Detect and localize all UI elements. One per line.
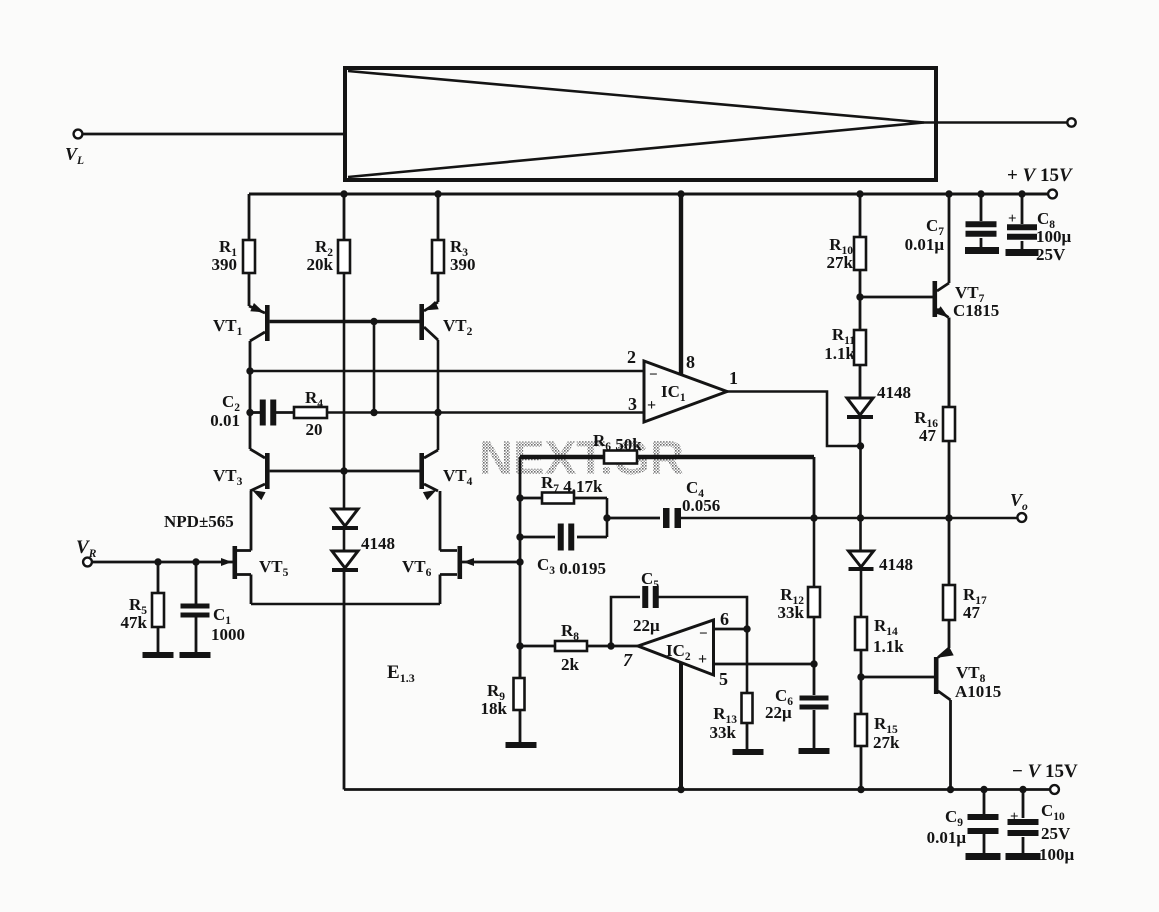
resistor R6 feedback line — [520, 431, 814, 464]
svg-text:8: 8 — [686, 352, 695, 372]
junction pin6 node — [743, 625, 750, 632]
junction rail-R2 — [340, 190, 347, 197]
svg-text:0.01μ: 0.01μ — [905, 235, 945, 254]
resistor R16 — [914, 318, 955, 519]
wire IC2 pin6 — [714, 628, 748, 631]
wire IC1 pin8 — [679, 194, 683, 376]
resistor R10 — [827, 194, 866, 297]
capacitor C1 — [181, 562, 246, 653]
wire IC1 output — [727, 392, 861, 447]
op-amp IC1 — [627, 347, 738, 422]
svg-text:5: 5 — [719, 669, 728, 689]
label E1.3 — [387, 662, 415, 685]
junction C4 node — [603, 514, 610, 521]
ground C8 — [1006, 249, 1039, 256]
fader wedge top line — [348, 71, 924, 123]
svg-text:25V: 25V — [1041, 824, 1071, 843]
capacitor C7 — [905, 194, 997, 254]
wire VT3/VT4 base line — [270, 470, 420, 473]
svg-text:+ V 15V: + V 15V — [1007, 165, 1073, 186]
label NPD±565 — [164, 512, 234, 531]
junction Vo-R17 — [945, 514, 952, 521]
-V 15V supply rail — [344, 788, 1050, 791]
transistor VT2 (PNP) — [419, 301, 472, 450]
wire R7 to C4 node — [606, 498, 609, 537]
resistor R17 — [943, 518, 987, 648]
junction Vo-diode column — [857, 514, 864, 521]
svg-text:+: + — [647, 397, 656, 414]
junction VR-C1 — [192, 558, 199, 565]
svg-text:4148: 4148 — [879, 555, 913, 574]
capacitor C8 (electrolytic) — [1007, 194, 1072, 264]
capacitor C6 — [765, 664, 829, 749]
transistor VT5 (JFET) — [221, 491, 289, 604]
wire between diodes — [343, 530, 346, 551]
ground C9 — [966, 853, 1001, 860]
wire Vo line — [678, 517, 1018, 520]
svg-text:4148: 4148 — [361, 534, 395, 553]
svg-text:3: 3 — [628, 394, 637, 414]
label 4148 pair — [361, 534, 395, 553]
svg-text:100μ: 100μ — [1036, 227, 1072, 246]
junction base line to x374 — [370, 318, 377, 325]
svg-text:33k: 33k — [710, 723, 737, 742]
diode D-b 4148 — [332, 551, 358, 572]
svg-text:C1815: C1815 — [953, 301, 999, 320]
node VL input terminal — [65, 130, 84, 167]
junction rail-VT7 — [945, 190, 952, 197]
junction rail-C8 — [1018, 190, 1025, 197]
transistor VT4 (NPN) — [419, 450, 472, 500]
transistor VT6 (JFET) — [402, 491, 474, 604]
junction rail-R15 — [857, 786, 864, 793]
op-amp IC2 — [623, 609, 729, 689]
svg-text:27k: 27k — [873, 733, 900, 752]
diode D2 4148 — [849, 551, 914, 574]
junction IC1 output-diode column — [857, 442, 864, 449]
resistor R9 — [481, 646, 525, 743]
wire IC2 power pin — [679, 663, 683, 790]
capacitor C5 feedback — [611, 569, 747, 646]
fader/potentiometer box — [345, 68, 936, 180]
svg-text:33k: 33k — [778, 603, 805, 622]
capacitor C9 — [927, 790, 999, 854]
svg-text:1: 1 — [729, 368, 738, 388]
diode D1 4148 — [847, 383, 911, 419]
capacitor C4 — [607, 478, 720, 528]
junction pin2 line — [246, 367, 253, 374]
svg-text:1.1k: 1.1k — [873, 637, 904, 656]
junction gate node — [516, 558, 523, 565]
transistor VT3 (NPN) — [213, 449, 270, 500]
resistor R11 — [824, 297, 866, 398]
resistor R7 — [520, 473, 607, 504]
svg-text:25V: 25V — [1036, 245, 1066, 264]
node Vo output terminal — [1010, 490, 1028, 522]
ground R5 — [143, 652, 174, 658]
wire VT7 base — [860, 296, 933, 299]
ground C6 — [799, 748, 830, 754]
svg-text:1.1k: 1.1k — [824, 344, 855, 363]
resistor R12 — [778, 457, 820, 664]
svg-text:390: 390 — [212, 255, 238, 274]
transistor VT1 (PNP) — [213, 303, 270, 341]
junction Vo-R12 — [810, 514, 817, 521]
wire base node down — [343, 471, 346, 509]
capacitor C2 — [210, 392, 276, 430]
junction base-diodes — [340, 467, 347, 474]
capacitor C3 — [520, 524, 607, 579]
capacitor C10 (electrolytic) — [1008, 790, 1075, 865]
junction rail-IC1 pin8 — [677, 190, 684, 197]
junction pin3-374 — [370, 409, 377, 416]
transistor VT8 (PNP A1015) — [934, 647, 1001, 790]
svg-text:NPD±565: NPD±565 — [164, 512, 234, 531]
junction C3 left — [516, 533, 523, 540]
wire VT8 base — [861, 676, 934, 679]
resistor R14 — [855, 616, 904, 677]
wire fader wiper output — [924, 121, 1067, 123]
svg-text:4148: 4148 — [877, 383, 911, 402]
svg-text:2k: 2k — [561, 655, 580, 674]
resistor R8 — [520, 621, 638, 674]
svg-text:6: 6 — [720, 609, 729, 629]
node +V terminal — [1007, 165, 1073, 198]
svg-text:1000: 1000 — [211, 625, 245, 644]
wire VT1 collector to IC1 pin2 — [249, 341, 252, 449]
junction rail-R10 — [856, 190, 863, 197]
+V 15V supply rail — [249, 193, 1048, 196]
svg-text:22μ: 22μ — [765, 703, 792, 722]
svg-text:0.056: 0.056 — [682, 496, 720, 515]
svg-text:390: 390 — [450, 255, 476, 274]
svg-text:18k: 18k — [481, 699, 508, 718]
transistor VT7 (NPN C1815) — [933, 194, 1000, 407]
junction pin3-VT2 collector — [434, 409, 441, 416]
svg-text:2: 2 — [627, 347, 636, 367]
junction VT7 base — [856, 293, 863, 300]
junction rail-C9 — [980, 786, 987, 793]
node -V terminal — [1012, 761, 1078, 794]
svg-text:0.01μ: 0.01μ — [927, 828, 967, 847]
junction rail-C10 — [1019, 786, 1026, 793]
wire gate node vertical — [519, 457, 522, 678]
ground C10 — [1006, 853, 1041, 860]
junction R8 right C5 tap — [607, 642, 614, 649]
svg-text:20: 20 — [306, 420, 323, 439]
wire diodes to bottom rail — [343, 572, 346, 790]
resistor R15 — [855, 677, 900, 790]
wire VT5-VT6 source rail — [251, 603, 440, 606]
junction VT8 base — [857, 673, 864, 680]
ground R13 — [733, 749, 764, 755]
svg-text:A1015: A1015 — [955, 682, 1001, 701]
svg-text:47: 47 — [963, 603, 981, 622]
junction rail-R3 — [434, 190, 441, 197]
wire IC2 pin5 — [714, 663, 815, 666]
junction VR-R5 — [154, 558, 161, 565]
junction R8 left — [516, 642, 523, 649]
svg-text:100μ: 100μ — [1039, 845, 1075, 864]
junction rail-C7 — [977, 190, 984, 197]
wire VR to VT5 gate — [92, 561, 233, 564]
wire Vo to D2 — [859, 518, 862, 551]
junction rail-IC2 — [677, 786, 684, 793]
wire VL to fader box — [83, 133, 346, 136]
junction R7 left — [516, 494, 523, 501]
junction C2 node — [246, 409, 253, 416]
ground R9 — [506, 742, 537, 748]
wire VT1 base line — [270, 320, 420, 323]
wire D1 to output junction — [859, 419, 862, 446]
resistor R13 — [710, 629, 753, 750]
ground C1 — [180, 652, 211, 658]
svg-text:−: − — [649, 367, 658, 383]
wire R4 to IC1 pin3 — [327, 411, 644, 414]
svg-text:20k: 20k — [307, 255, 334, 274]
svg-text:− V 15V: − V 15V — [1012, 761, 1078, 782]
resistor R2 — [307, 194, 350, 471]
fader wedge bottom line — [348, 123, 924, 178]
wire D2 to R14 — [860, 570, 863, 617]
junction rail-VT8 — [947, 786, 954, 793]
resistor R3 — [432, 194, 476, 302]
wire pin2 line — [250, 370, 644, 373]
svg-text:22μ: 22μ — [633, 616, 660, 635]
svg-text:0.01: 0.01 — [210, 411, 240, 430]
node VR input terminal — [76, 537, 97, 566]
resistor R1 — [212, 194, 256, 306]
node wiper output terminal — [1067, 118, 1075, 126]
svg-text:47: 47 — [919, 426, 937, 445]
wire diode column to Vo — [859, 446, 862, 518]
junction pin5 node — [810, 660, 817, 667]
wire VT6 gate — [461, 561, 520, 564]
wire vertical 374 — [373, 322, 376, 413]
svg-text:47k: 47k — [121, 613, 148, 632]
ground C7 — [965, 247, 999, 254]
resistor R5 — [121, 562, 164, 653]
svg-text:7: 7 — [623, 650, 633, 670]
svg-text:−: − — [699, 626, 708, 642]
svg-text:27k: 27k — [827, 253, 854, 272]
diode D-a 4148 — [332, 509, 358, 530]
resistor R4 — [294, 388, 327, 439]
wire C2 to R4 — [250, 411, 294, 414]
svg-text:+: + — [698, 651, 707, 668]
